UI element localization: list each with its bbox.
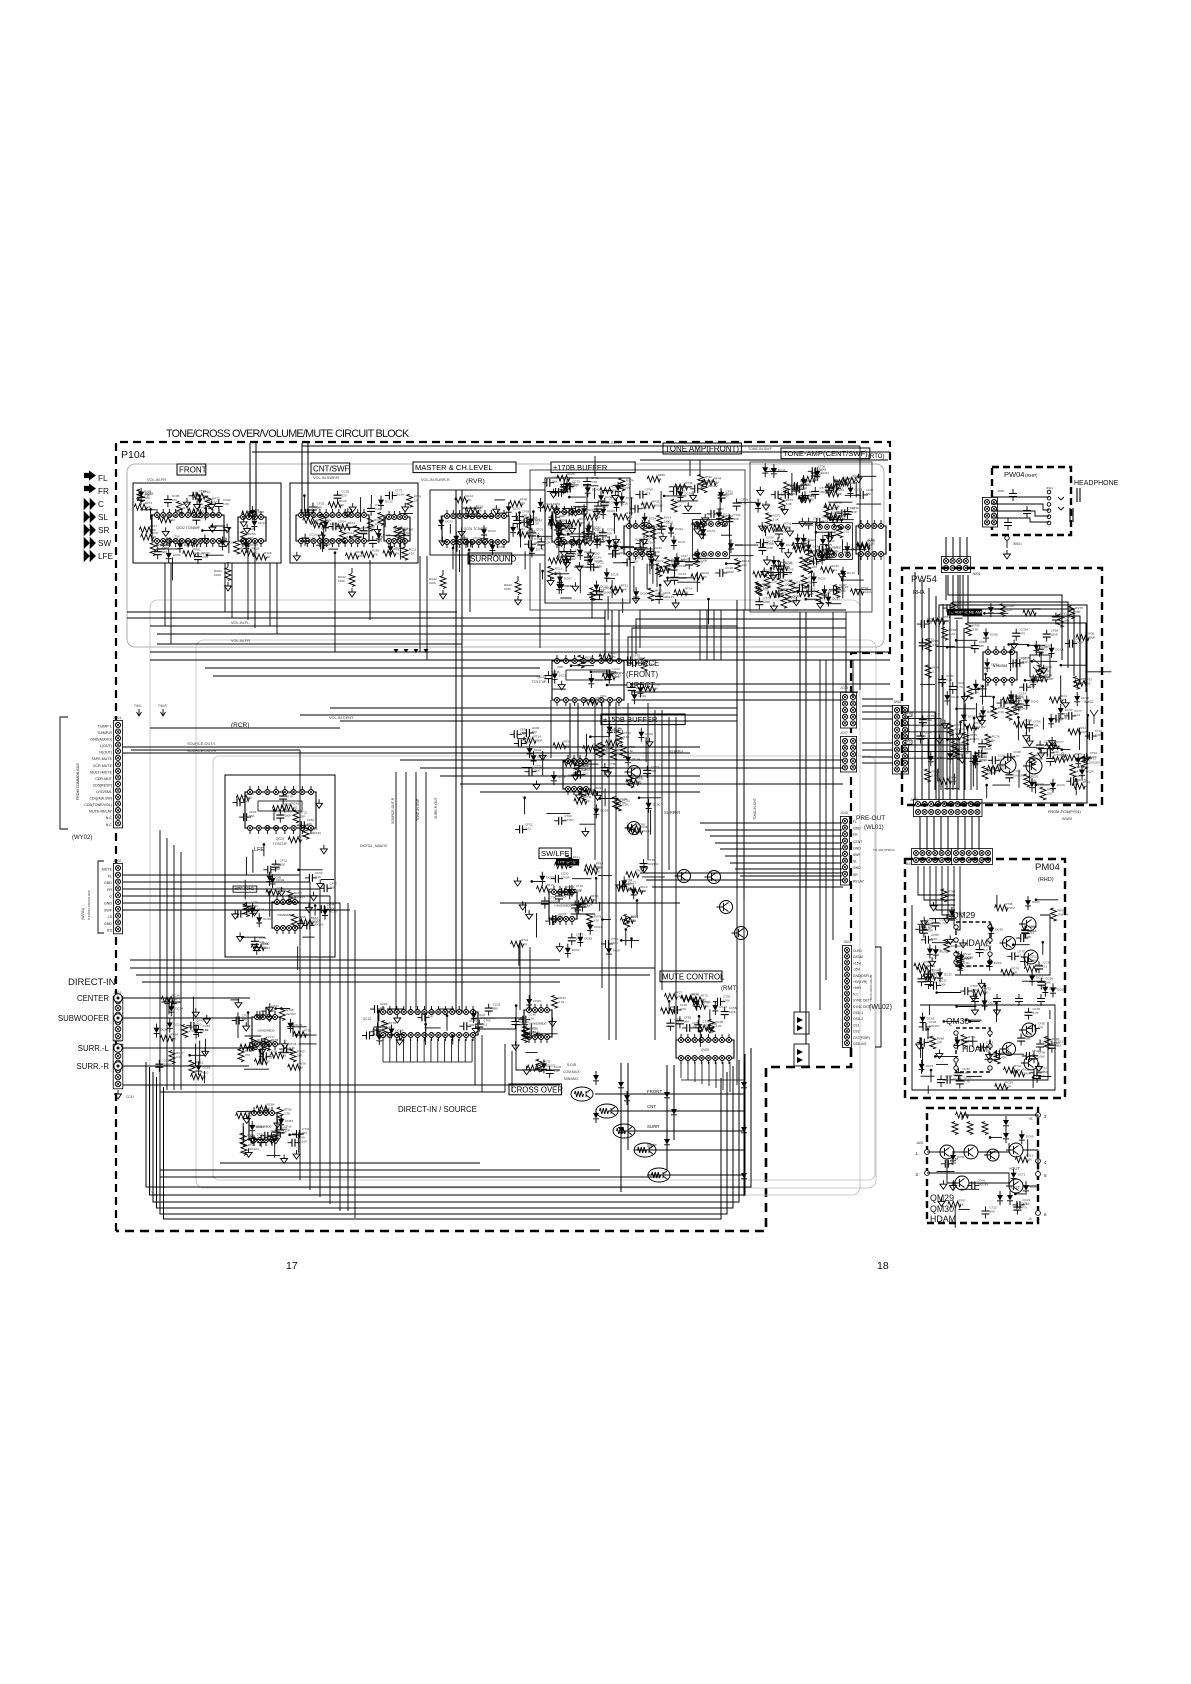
resistor RC45: [802, 477, 815, 483]
svg-text:2.2K: 2.2K: [1005, 1085, 1011, 1089]
capacitor CT06: [1008, 770, 1010, 782]
wire: [571, 665, 594, 667]
svg-text:10K: 10K: [243, 799, 248, 803]
svg-text:3.3K: 3.3K: [1062, 716, 1068, 720]
svg-text:680: 680: [979, 644, 984, 648]
wire: [252, 850, 254, 873]
resistor RC74: [619, 478, 625, 491]
capacitor CF75: [922, 715, 924, 727]
wire: [976, 752, 988, 754]
resistor RF67: [141, 534, 154, 540]
wire: [425, 1024, 427, 1045]
svg-text:0.1: 0.1: [385, 517, 390, 521]
wire: [504, 1044, 506, 1092]
svg-text:DC87: DC87: [564, 577, 572, 581]
wire: [600, 798, 619, 800]
resistor RV12: [1012, 1071, 1025, 1077]
wire: [127, 611, 457, 613]
ground: [1049, 737, 1056, 746]
record select IC QC07 TC9274F: [245, 792, 316, 828]
ground: [660, 533, 667, 542]
resistor RT59: [952, 741, 958, 754]
svg-text:3.3K: 3.3K: [315, 875, 321, 879]
wire: [947, 739, 960, 741]
wire: [287, 1026, 307, 1028]
resistor RC59: [995, 1084, 1008, 1090]
resistor RC91: [615, 798, 621, 811]
svg-text:DC92: DC92: [256, 510, 264, 514]
svg-text:1000P: 1000P: [1051, 1041, 1060, 1045]
svg-text:1000P: 1000P: [725, 570, 734, 574]
capacitor CC63: [195, 513, 197, 525]
wire: [150, 659, 860, 661]
svg-text:18: 18: [877, 1260, 889, 1272]
resistor RF80: [826, 484, 839, 490]
block PW04 border: [992, 467, 1071, 535]
wire: [791, 473, 793, 495]
capacitor CC61: [988, 759, 1000, 761]
wire: [300, 714, 737, 716]
resistor RT84: [616, 514, 629, 520]
svg-text:56K: 56K: [840, 517, 845, 521]
capacitor CF91: [981, 739, 983, 751]
connector JW03: [913, 799, 982, 816]
resistor RV92: [383, 550, 396, 556]
svg-text:VOL-IN-CENT: VOL-IN-CENT: [329, 716, 354, 720]
svg-text:DC84: DC84: [989, 1000, 997, 1004]
diode DC13: [728, 543, 734, 549]
label TONE AMP(FRONT): [663, 443, 741, 454]
resistor RT44: [585, 699, 598, 705]
svg-text:DC18: DC18: [559, 674, 567, 678]
wire: [963, 575, 1080, 684]
capacitor CC72: [233, 913, 245, 915]
op-amp NJM2068DD (LFE filter): [272, 902, 300, 928]
wire: [668, 1001, 670, 1014]
resistor RV77: [616, 886, 629, 892]
svg-text:100K: 100K: [273, 867, 280, 871]
wire: [924, 866, 955, 900]
capacitor CC49: [259, 1055, 271, 1057]
svg-text:22/16V: 22/16V: [646, 541, 656, 545]
capacitor CF35: [279, 1048, 291, 1050]
capacitor CF70: [1025, 926, 1027, 938]
wire: [957, 816, 959, 850]
wires inside PW04: [991, 496, 1049, 498]
wire: [425, 1014, 427, 1032]
svg-text:3.3K: 3.3K: [784, 526, 790, 530]
svg-text:3.3K: 3.3K: [348, 525, 354, 529]
svg-text:+B: +B: [1028, 1117, 1033, 1121]
resistor RV69: [290, 1049, 296, 1062]
svg-text:47K: 47K: [532, 730, 537, 734]
block PW54 border: [902, 568, 1102, 805]
svg-text:100K: 100K: [702, 1023, 709, 1027]
wire: [806, 598, 818, 600]
svg-text:1K: 1K: [658, 477, 662, 481]
resistor RV22: [626, 872, 639, 878]
ground: [612, 586, 619, 595]
capacitor CT41: [514, 1017, 516, 1029]
wire: [699, 460, 701, 476]
svg-text:2.2K: 2.2K: [564, 527, 570, 531]
resistor RF27: [664, 994, 677, 1000]
wire: [594, 456, 596, 476]
svg-text:0.1: 0.1: [997, 768, 1002, 772]
wire: [1042, 942, 1044, 955]
svg-text:(RVR): (RVR): [466, 478, 485, 485]
capacitor CF32: [302, 924, 314, 926]
HDAM module QM29: [956, 922, 990, 966]
svg-text:3.3K: 3.3K: [547, 887, 553, 891]
svg-text:DC73: DC73: [964, 964, 972, 968]
diode DC84: [844, 546, 850, 552]
svg-text:(WV01): (WV01): [81, 908, 85, 920]
ground: [514, 877, 521, 886]
diode DC03: [220, 541, 226, 547]
diode DC76: [694, 1001, 700, 1007]
svg-text:DC09: DC09: [994, 961, 1002, 965]
ground: [594, 791, 601, 800]
wire: [273, 810, 275, 821]
ground: [266, 1003, 273, 1012]
svg-text:DC65: DC65: [497, 545, 505, 549]
ground: [1083, 753, 1090, 762]
capacitor CF13: [516, 516, 518, 528]
svg-text:DC25: DC25: [778, 560, 786, 564]
svg-text:680: 680: [651, 769, 656, 773]
resistor RV84: [826, 491, 839, 497]
svg-text:56K: 56K: [249, 814, 254, 818]
ground: [519, 901, 526, 910]
capacitor CF98: [157, 547, 159, 559]
svg-text:680: 680: [162, 550, 167, 554]
diode DC70: [840, 571, 846, 577]
resistor RT72: [753, 571, 766, 577]
svg-text:4.7K: 4.7K: [465, 498, 471, 502]
svg-text:DC42: DC42: [956, 911, 964, 915]
op-amp NJM2068MD (170B buffer): [552, 512, 584, 542]
resistor RF45: [764, 575, 770, 588]
wire: [935, 596, 937, 800]
wire: [569, 703, 571, 758]
resistor RF01: [254, 1059, 267, 1065]
capacitor CT87: [707, 513, 719, 515]
resistor RF73: [537, 886, 550, 892]
svg-text:TAPE-MUTE: TAPE-MUTE: [92, 757, 113, 761]
capacitor CT31: [292, 1133, 304, 1135]
svg-text:22/16V: 22/16V: [708, 484, 718, 488]
wire: [935, 1055, 958, 1057]
diode DC14: [177, 543, 183, 549]
wire: [676, 561, 699, 563]
svg-text:2.2K: 2.2K: [565, 533, 571, 537]
wire: [577, 703, 579, 758]
svg-text:1K: 1K: [530, 519, 534, 523]
capacitor CF28: [246, 902, 248, 914]
wire: [259, 1051, 261, 1064]
capacitor CC92: [608, 553, 620, 555]
capacitor CF14: [1029, 1072, 1041, 1074]
ground: [1023, 732, 1030, 741]
resistor RF05: [319, 514, 325, 527]
source select IC QC13 TC9174P: [552, 661, 624, 700]
capacitor CF64: [297, 824, 309, 826]
svg-text:±170B BUFFER: ±170B BUFFER: [553, 463, 608, 472]
resistor RF18: [527, 1065, 540, 1071]
wire: [647, 703, 649, 860]
wire: [635, 548, 652, 550]
wire: [862, 698, 893, 700]
wire: [123, 895, 330, 897]
resistor RT61: [602, 674, 615, 680]
resistor RT36: [785, 589, 791, 602]
svg-text:5.6K: 5.6K: [786, 502, 792, 506]
ground: [201, 535, 208, 544]
svg-text:WN01: WN01: [1013, 542, 1022, 546]
svg-text:470: 470: [265, 1060, 270, 1064]
capacitor CF15: [1020, 961, 1032, 963]
wire: [123, 752, 690, 754]
capacitor CT64: [271, 1132, 273, 1144]
wire: [449, 524, 451, 534]
wire: [553, 688, 566, 690]
wire: [150, 651, 858, 653]
wire: [586, 734, 588, 756]
ground: [1040, 665, 1047, 674]
svg-text:33P: 33P: [1060, 698, 1065, 702]
ground: [298, 920, 305, 929]
wire: [743, 610, 745, 900]
svg-text:N.C: N.C: [853, 992, 859, 996]
wire: [123, 874, 300, 876]
capacitor CT72: [1039, 1040, 1041, 1052]
resistor RC16: [548, 566, 554, 579]
diode DC14: [167, 1023, 173, 1029]
resistor RC67: [956, 957, 962, 970]
wire: [518, 945, 520, 966]
capacitor CT41: [795, 483, 797, 495]
svg-text:CNT: CNT: [647, 1104, 656, 1109]
ground: [664, 577, 671, 586]
wire: [959, 537, 961, 558]
svg-text:2.2K: 2.2K: [1011, 970, 1017, 974]
resistor RT97: [582, 531, 588, 544]
diode DC79: [607, 727, 613, 733]
svg-text:NJM2068DD: NJM2068DD: [257, 1029, 275, 1033]
svg-text:FRONT: FRONT: [179, 466, 207, 475]
svg-text:DC39: DC39: [460, 536, 468, 540]
bracket FROM COMMON BUS: [60, 717, 68, 829]
capacitor CF83: [679, 1016, 681, 1028]
diode DC47: [674, 557, 680, 563]
resistor RC87: [842, 477, 855, 483]
wire: [937, 992, 962, 994]
diode DC24: [538, 502, 544, 508]
diode DC36: [256, 917, 262, 923]
label MASTER & CH.LEVEL (RVR): [413, 462, 516, 473]
svg-text:2.2K: 2.2K: [771, 580, 777, 584]
wire: [266, 1155, 280, 1157]
wire: [642, 876, 665, 878]
svg-text:100K: 100K: [1038, 1054, 1045, 1058]
diode DC11: [1029, 976, 1035, 982]
diode DC91: [984, 662, 990, 668]
resistor RF23: [620, 745, 626, 758]
svg-text:TONE-IN-SWF: TONE-IN-SWF: [748, 447, 773, 451]
svg-text:0.1: 0.1: [984, 751, 989, 755]
ground: [941, 720, 948, 729]
diode DC72: [588, 678, 594, 684]
resistor RV84: [288, 837, 301, 843]
wire: [903, 752, 971, 790]
wire: [171, 557, 173, 580]
ground: [244, 525, 251, 534]
resistor RF85: [805, 561, 811, 574]
wire: [446, 1016, 448, 1031]
svg-text:3.3K: 3.3K: [773, 517, 779, 521]
svg-text:DC24: DC24: [1086, 770, 1094, 774]
svg-text:10K: 10K: [927, 1040, 932, 1044]
capacitor CC62: [928, 977, 930, 989]
svg-text:3.3K: 3.3K: [176, 1055, 182, 1059]
resistor RC08: [271, 1052, 284, 1058]
capacitor CT30: [808, 470, 820, 472]
wire: [301, 443, 303, 515]
svg-text:4.7K: 4.7K: [1019, 660, 1025, 664]
transistor QM05: [1009, 1143, 1023, 1157]
svg-text:QC07: QC07: [276, 837, 285, 841]
svg-text:LS: LS: [108, 915, 113, 919]
resistor RV80: [251, 945, 264, 951]
wire: [903, 712, 935, 790]
diode DC92: [270, 878, 276, 884]
wire: [269, 892, 271, 917]
svg-text:470: 470: [529, 1031, 534, 1035]
wire: [468, 515, 494, 517]
svg-text:220: 220: [307, 822, 312, 826]
resistor RC15: [944, 939, 950, 952]
svg-text:680: 680: [809, 497, 814, 501]
svg-text:0.01: 0.01: [822, 519, 828, 523]
wire: [726, 563, 739, 565]
label LPF 80Hz: [556, 859, 579, 866]
resistor RF85: [266, 890, 279, 896]
capacitor CT41: [940, 1075, 942, 1087]
svg-text:470: 470: [245, 1053, 250, 1057]
diode DC36: [376, 1035, 382, 1041]
diode DC46: [594, 539, 600, 545]
svg-text:2.2K: 2.2K: [946, 678, 952, 682]
wire: [323, 527, 325, 548]
diode DC60: [565, 948, 571, 954]
wire: [224, 563, 226, 612]
resistor RT17: [789, 580, 795, 593]
wire: [314, 906, 316, 916]
wire: [613, 514, 615, 534]
capacitor CC44: [317, 908, 329, 910]
svg-text:VOL-IN-SURR-R: VOL-IN-SURR-R: [421, 478, 450, 482]
capacitor CT10: [690, 488, 702, 490]
resistor RF91: [1057, 614, 1063, 627]
capacitor CF68: [279, 811, 281, 823]
svg-text:CST(P30P): CST(P30P): [853, 1036, 870, 1040]
resistor RF40: [509, 501, 522, 507]
svg-text:33P: 33P: [802, 486, 807, 490]
diode DC69: [920, 1017, 926, 1023]
svg-text:QC02 TC9459F: QC02 TC9459F: [176, 526, 200, 530]
resistor RG (dangling): [227, 562, 229, 567]
resistor RF82: [1070, 764, 1076, 777]
wire: [955, 915, 1050, 975]
svg-text:4.7K: 4.7K: [585, 660, 591, 664]
svg-text:DC95: DC95: [533, 999, 541, 1003]
wire: [500, 902, 680, 904]
wire: [1079, 728, 1081, 750]
wire: [982, 686, 984, 704]
wire: [608, 702, 610, 1040]
capacitor CC54: [1015, 629, 1017, 641]
wire: [967, 727, 969, 751]
svg-text:56K: 56K: [267, 1039, 272, 1043]
diode DC79: [919, 1064, 925, 1070]
svg-text:FR: FR: [853, 833, 858, 837]
capacitor CC25: [1039, 741, 1041, 753]
label SURROUND: [468, 553, 512, 564]
svg-text:DC79: DC79: [536, 548, 544, 552]
wire: [537, 1033, 558, 1035]
capacitor CC22: [929, 985, 941, 987]
capacitor CF51: [623, 660, 635, 662]
svg-text:DC33: DC33: [944, 972, 952, 976]
ground: [281, 1040, 288, 1049]
svg-text:T/M-L: T/M-L: [134, 704, 143, 708]
svg-text:33P: 33P: [427, 1014, 432, 1018]
capacitor CC06: [756, 542, 768, 544]
TONE AMP FRONT stage box: [530, 470, 745, 610]
ground: [563, 556, 570, 565]
wire: [914, 572, 916, 800]
diode DC93: [138, 492, 144, 498]
wire: [245, 1035, 262, 1037]
wire: [792, 522, 813, 524]
resistor RF41: [1052, 756, 1065, 762]
resistor RT15: [626, 779, 639, 785]
wire: [1010, 652, 1012, 671]
ground: [256, 1011, 263, 1020]
diode DC65: [490, 545, 496, 551]
resistor RG (dangling): [351, 568, 353, 573]
wire: [652, 886, 843, 888]
junction arrow: [404, 649, 409, 653]
wire: [903, 725, 947, 790]
ground: [970, 992, 977, 1001]
wire: [661, 710, 663, 990]
ground: [757, 487, 764, 496]
svg-text:4.7K: 4.7K: [980, 759, 986, 763]
resistor RT42: [961, 1035, 967, 1048]
svg-text:100K: 100K: [473, 540, 480, 544]
transistor QM01: [940, 1145, 954, 1159]
ground: [237, 933, 244, 942]
wire: [157, 633, 610, 635]
svg-text:(RMT): (RMT): [721, 986, 738, 992]
svg-text:DC65: DC65: [607, 509, 615, 513]
svg-text:100/16V: 100/16V: [929, 1024, 940, 1028]
svg-text:56K: 56K: [524, 741, 529, 745]
svg-text:680: 680: [242, 1018, 247, 1022]
relay box: [1030, 655, 1050, 677]
